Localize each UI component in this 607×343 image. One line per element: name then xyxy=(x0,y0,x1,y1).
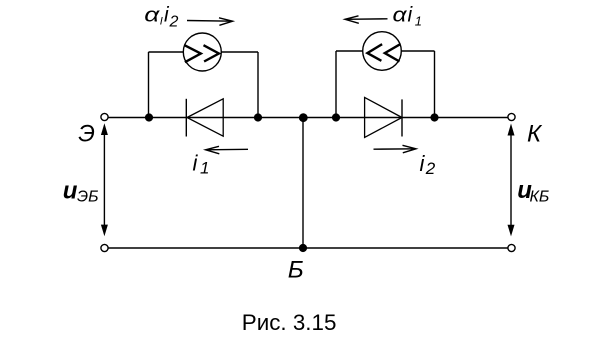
label alpha i1 xyxy=(393,4,423,29)
svg-text:Э: Э xyxy=(78,121,95,148)
wire bottom horizontal xyxy=(108,247,508,249)
arrow right for alpha_I i2 xyxy=(187,18,233,26)
terminal Э open circle xyxy=(101,113,108,120)
arrow right for i2 xyxy=(374,145,417,153)
wire left loop top-left horizontal xyxy=(149,51,184,53)
label alpha_I i2 xyxy=(144,4,178,31)
svg-text:I: I xyxy=(160,16,163,28)
node dot junction right loop right xyxy=(430,113,438,121)
svg-text:К: К xyxy=(527,121,543,148)
arrow left for alpha i1 xyxy=(345,16,388,23)
diode VD2 (points right) xyxy=(365,97,402,137)
current source U2 chevrons << xyxy=(367,44,382,61)
node dot junction left loop left xyxy=(145,113,153,121)
svg-text:α: α xyxy=(393,5,408,27)
diode VD1 (points left) xyxy=(187,99,223,136)
wire left loop left vertical xyxy=(148,52,150,118)
arrow left for i1 xyxy=(206,146,248,154)
node dot junction center top xyxy=(299,113,308,122)
node dot Б bottom xyxy=(299,244,307,252)
terminal bottom-right open circle xyxy=(508,244,515,251)
arrow uКБ double-headed vertical xyxy=(508,124,515,237)
svg-text:КБ: КБ xyxy=(530,189,550,206)
wire right loop top-left horizontal xyxy=(336,50,363,52)
svg-text:2: 2 xyxy=(169,14,179,31)
svg-text:u: u xyxy=(63,178,78,205)
wire base vertical Б xyxy=(302,118,304,249)
svg-text:Б: Б xyxy=(288,257,304,284)
current source U1 circle (alpha_I i2) xyxy=(183,33,221,71)
terminal К open circle xyxy=(508,113,515,120)
svg-text:Рис. 3.15: Рис. 3.15 xyxy=(242,310,337,335)
wire right loop right vertical xyxy=(434,51,436,118)
svg-text:α: α xyxy=(144,5,160,27)
svg-text:1: 1 xyxy=(415,14,422,29)
current source U2 circle (alpha i1) xyxy=(363,32,402,71)
diode VD2 cathode bar xyxy=(401,99,403,136)
label i1 xyxy=(193,151,210,178)
svg-text:1: 1 xyxy=(200,159,209,178)
terminal bottom-left open circle xyxy=(101,244,108,251)
wire left loop right vertical xyxy=(257,52,259,118)
svg-text:ЭБ: ЭБ xyxy=(77,189,99,206)
node dot junction right loop left xyxy=(332,113,340,121)
arrow uЭБ double-headed vertical xyxy=(101,123,108,236)
wire right loop top-right horizontal xyxy=(402,50,435,52)
wire right loop left vertical xyxy=(335,51,337,118)
diode VD1 cathode bar xyxy=(185,99,187,137)
wire main horizontal Э-К xyxy=(108,117,508,119)
svg-text:2: 2 xyxy=(425,159,436,178)
wire left loop top-right horizontal xyxy=(222,51,259,53)
label i2 xyxy=(420,151,436,178)
current source U1 chevrons >> xyxy=(185,45,201,62)
node dot junction left loop right xyxy=(254,113,262,121)
